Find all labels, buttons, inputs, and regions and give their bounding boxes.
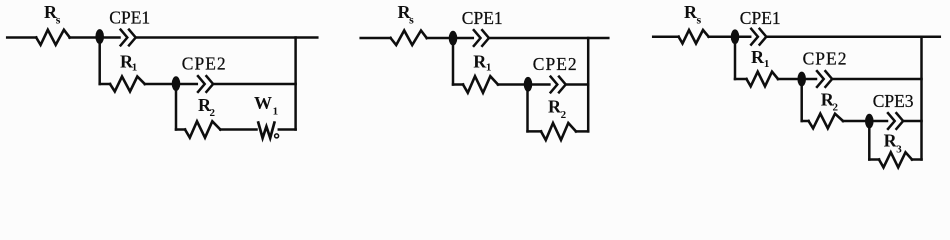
svg-text:CPE2: CPE2	[533, 54, 578, 74]
svg-text:s: s	[56, 12, 61, 26]
svg-text:CPE3: CPE3	[873, 91, 914, 111]
svg-text:2: 2	[561, 109, 567, 121]
svg-text:3: 3	[896, 144, 902, 156]
svg-text:1: 1	[132, 62, 138, 74]
svg-text:CPE1: CPE1	[740, 8, 781, 28]
svg-text:s: s	[697, 12, 702, 26]
svg-text:2: 2	[210, 107, 216, 119]
svg-text:CPE1: CPE1	[462, 8, 503, 28]
svg-text:R: R	[751, 47, 765, 67]
svg-text:1: 1	[486, 62, 492, 74]
svg-text:1: 1	[764, 58, 770, 70]
svg-text:CPE2: CPE2	[182, 54, 227, 74]
svg-text:1: 1	[273, 106, 279, 118]
svg-text:CPE1: CPE1	[109, 8, 150, 28]
svg-text:CPE2: CPE2	[803, 49, 848, 69]
svg-text:s: s	[409, 12, 414, 26]
svg-text:2: 2	[833, 102, 839, 114]
svg-text:W: W	[254, 93, 272, 113]
